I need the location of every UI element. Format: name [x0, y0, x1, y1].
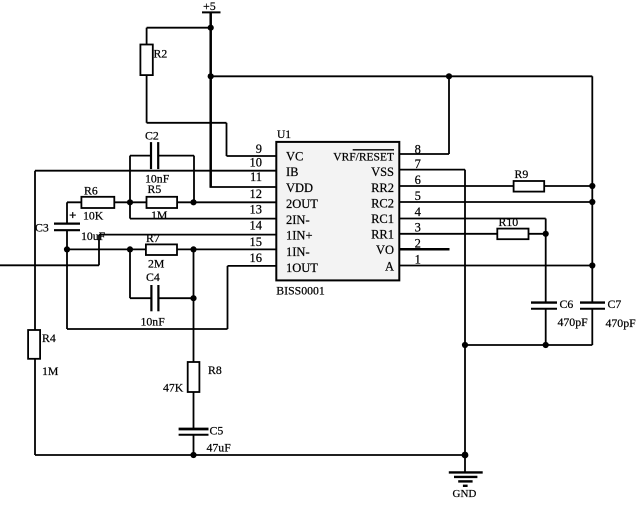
wire pin16 1OUT [228, 265, 277, 267]
svg-text:8: 8 [415, 142, 421, 156]
wire pin1 A [399, 265, 592, 267]
wire pin10 IB to left rail [35, 170, 276, 172]
svg-text:R10: R10 [499, 215, 519, 229]
wire R2 to pin9 horizontal [147, 122, 227, 124]
svg-text:BISS0001: BISS0001 [276, 284, 325, 298]
svg-text:470pF: 470pF [606, 316, 637, 330]
svg-text:VDD: VDD [286, 181, 313, 195]
power +5 bar [202, 11, 221, 13]
node C3 bottom junction [64, 246, 70, 252]
svg-text:4: 4 [415, 205, 422, 219]
node 1IN-/C4 right junction [190, 246, 196, 252]
resistor R6 [81, 197, 114, 208]
node +5/R2 branch [208, 25, 214, 31]
U1 right pin numbers [415, 142, 422, 266]
wire bottom-right net [465, 344, 592, 346]
node RC2 rail junction [589, 199, 595, 205]
capacitor C4 [150, 285, 152, 311]
wire +5 vertical rail to VDD [209, 12, 212, 187]
wire +5 top distribution to right rail [211, 75, 593, 77]
resistor R4 [28, 330, 40, 359]
svg-text:1: 1 [415, 252, 421, 266]
capacitor C7 [580, 301, 605, 303]
svg-text:RR1: RR1 [371, 228, 394, 242]
node 2OUT/C2 right junction [190, 199, 196, 205]
node C5 bottom junction [190, 452, 196, 458]
resistor R9 [514, 181, 545, 192]
svg-text:10uF: 10uF [81, 229, 106, 243]
U1 RESET overline [353, 149, 394, 151]
svg-text:6: 6 [415, 173, 421, 187]
wire C4 loop left vertical [129, 249, 131, 298]
svg-text:C7: C7 [608, 297, 622, 311]
svg-text:470pF: 470pF [558, 315, 589, 329]
wire input line from left edge [0, 264, 99, 266]
svg-text:RR2: RR2 [371, 181, 394, 195]
svg-text:1IN+: 1IN+ [286, 229, 313, 243]
svg-text:R7: R7 [146, 231, 160, 245]
svg-text:10: 10 [250, 156, 263, 170]
capacitor C2 [150, 142, 152, 169]
svg-text:2OUT: 2OUT [286, 197, 318, 211]
wire C3 top lead [66, 202, 68, 223]
svg-text:GND: GND [453, 488, 477, 500]
ground symbol [449, 472, 483, 500]
svg-text:3: 3 [415, 221, 421, 235]
wire C4 loop bottom left [130, 297, 151, 299]
svg-text:16: 16 [250, 251, 263, 265]
U1 left pin numbers [250, 142, 263, 265]
U1 right pin labels [333, 152, 394, 274]
wire C6 bottom lead [545, 309, 547, 345]
node C6 bottom junction [543, 342, 549, 348]
wire pin3 RR1 [399, 233, 546, 235]
svg-text:5: 5 [415, 189, 421, 203]
svg-text:C4: C4 [146, 270, 160, 284]
svg-text:C6: C6 [560, 297, 574, 311]
node pin8 rail junction [446, 73, 452, 79]
node +5/right rail branch [208, 73, 214, 79]
wire pin14 left vertical [98, 235, 100, 266]
wire feedback wrap right vertical [227, 266, 229, 329]
svg-text:R2: R2 [154, 47, 168, 61]
node 1IN-/C4 left junction [127, 246, 133, 252]
svg-text:VSS: VSS [371, 165, 394, 179]
U1 left pin labels [286, 150, 318, 275]
svg-text:R9: R9 [515, 167, 529, 181]
svg-text:2: 2 [415, 236, 421, 250]
wire pin2 VO stub [399, 248, 450, 251]
svg-text:1M: 1M [151, 208, 168, 222]
svg-text:C2: C2 [145, 129, 159, 143]
node RR1/RC1 junction [543, 231, 549, 237]
svg-text:15: 15 [250, 235, 263, 249]
wire C2 loop right vertical [193, 156, 195, 203]
svg-text:C3: C3 [35, 221, 49, 235]
capacitor C6 [531, 301, 557, 303]
wire pin7 VSS horizontal [399, 169, 465, 171]
resistor R7 [146, 244, 177, 255]
wire C3 bottom lead [66, 230, 68, 249]
capacitor C3 [54, 223, 80, 225]
svg-text:VO: VO [376, 243, 394, 257]
svg-text:47K: 47K [163, 381, 184, 395]
node 2OUT/C2 left junction [127, 199, 133, 205]
wire C5 bottom lead [193, 435, 195, 455]
svg-text:RC1: RC1 [371, 212, 394, 226]
svg-text:VC: VC [286, 150, 303, 164]
svg-text:RC2: RC2 [371, 197, 394, 211]
svg-text:13: 13 [250, 203, 263, 217]
wire pin5 RC2 [399, 201, 592, 203]
svg-text:1M: 1M [42, 364, 59, 378]
wire C2 loop left vertical to pin13 [129, 156, 131, 219]
svg-text:VRF/RESET: VRF/RESET [333, 152, 394, 164]
wire pin8 VRF horizontal [399, 153, 449, 155]
op-amp U1 BISS0001 body [276, 142, 399, 281]
svg-text:2M: 2M [148, 257, 165, 271]
wire feedback wrap horizontal [67, 328, 228, 330]
wire C2 loop top left [130, 155, 151, 157]
svg-text:U1: U1 [277, 129, 291, 141]
wire bottom rail [35, 454, 465, 456]
svg-text:10K: 10K [83, 209, 104, 223]
wire pin11 VDD [210, 186, 277, 188]
svg-text:R8: R8 [208, 363, 222, 377]
node ground bottom junction [462, 452, 469, 459]
node ground net corner [462, 342, 468, 348]
wire pin4 RC1 [399, 218, 546, 220]
svg-text:IB: IB [286, 165, 299, 179]
wire C2 loop top right [158, 155, 194, 157]
svg-text:7: 7 [415, 157, 421, 171]
resistor R2 [140, 45, 152, 76]
wire R2 top lead [146, 28, 148, 45]
wire pin4 down to C6 [545, 219, 547, 303]
node A rail junction [589, 262, 595, 268]
wire down to pin9 [226, 123, 228, 156]
wire pin12 2OUT [67, 201, 276, 203]
svg-text:1OUT: 1OUT [286, 261, 318, 275]
wire VSS to ground vertical [464, 170, 466, 455]
svg-text:2IN-: 2IN- [286, 213, 310, 227]
ground stem [464, 455, 466, 472]
svg-text:10nF: 10nF [145, 172, 170, 186]
capacitor C5 [179, 428, 209, 431]
svg-text:R4: R4 [42, 331, 56, 345]
svg-text:47uF: 47uF [207, 441, 232, 455]
wire pin15 1IN- [67, 248, 276, 250]
resistor R8 [188, 362, 200, 392]
svg-text:9: 9 [256, 142, 262, 156]
wire right vertical rail [591, 76, 593, 302]
svg-text:A: A [385, 260, 394, 274]
wire left rail [34, 171, 36, 455]
svg-text:C5: C5 [210, 424, 224, 438]
wire R2 bottom lead [146, 75, 148, 123]
svg-text:11: 11 [250, 170, 262, 184]
svg-text:R6: R6 [84, 184, 98, 198]
node C4 right bottom junction [190, 295, 196, 301]
svg-text:+5: +5 [203, 0, 216, 13]
wire pin13 2IN- [130, 218, 276, 220]
svg-text:+: + [69, 208, 76, 223]
wire +5 branch to R2 [147, 27, 211, 29]
svg-text:10nF: 10nF [141, 315, 166, 329]
svg-text:14: 14 [250, 219, 263, 233]
svg-text:12: 12 [250, 187, 263, 201]
resistor R10 [497, 229, 528, 240]
wire pin6 RR2 [399, 185, 592, 187]
resistor R5 [147, 197, 178, 208]
wire R8 column vertical [193, 249, 195, 428]
wire pin14 1IN+ [99, 234, 276, 236]
svg-text:1IN-: 1IN- [286, 245, 310, 259]
wire C7 bottom lead [591, 309, 593, 345]
wire feedback wrap left vertical [66, 249, 68, 329]
node RR2 rail junction [589, 183, 595, 189]
wire C4 loop bottom right [158, 297, 193, 299]
wire pin9 VC [227, 155, 277, 157]
wire pin8 vertical up [448, 76, 450, 154]
